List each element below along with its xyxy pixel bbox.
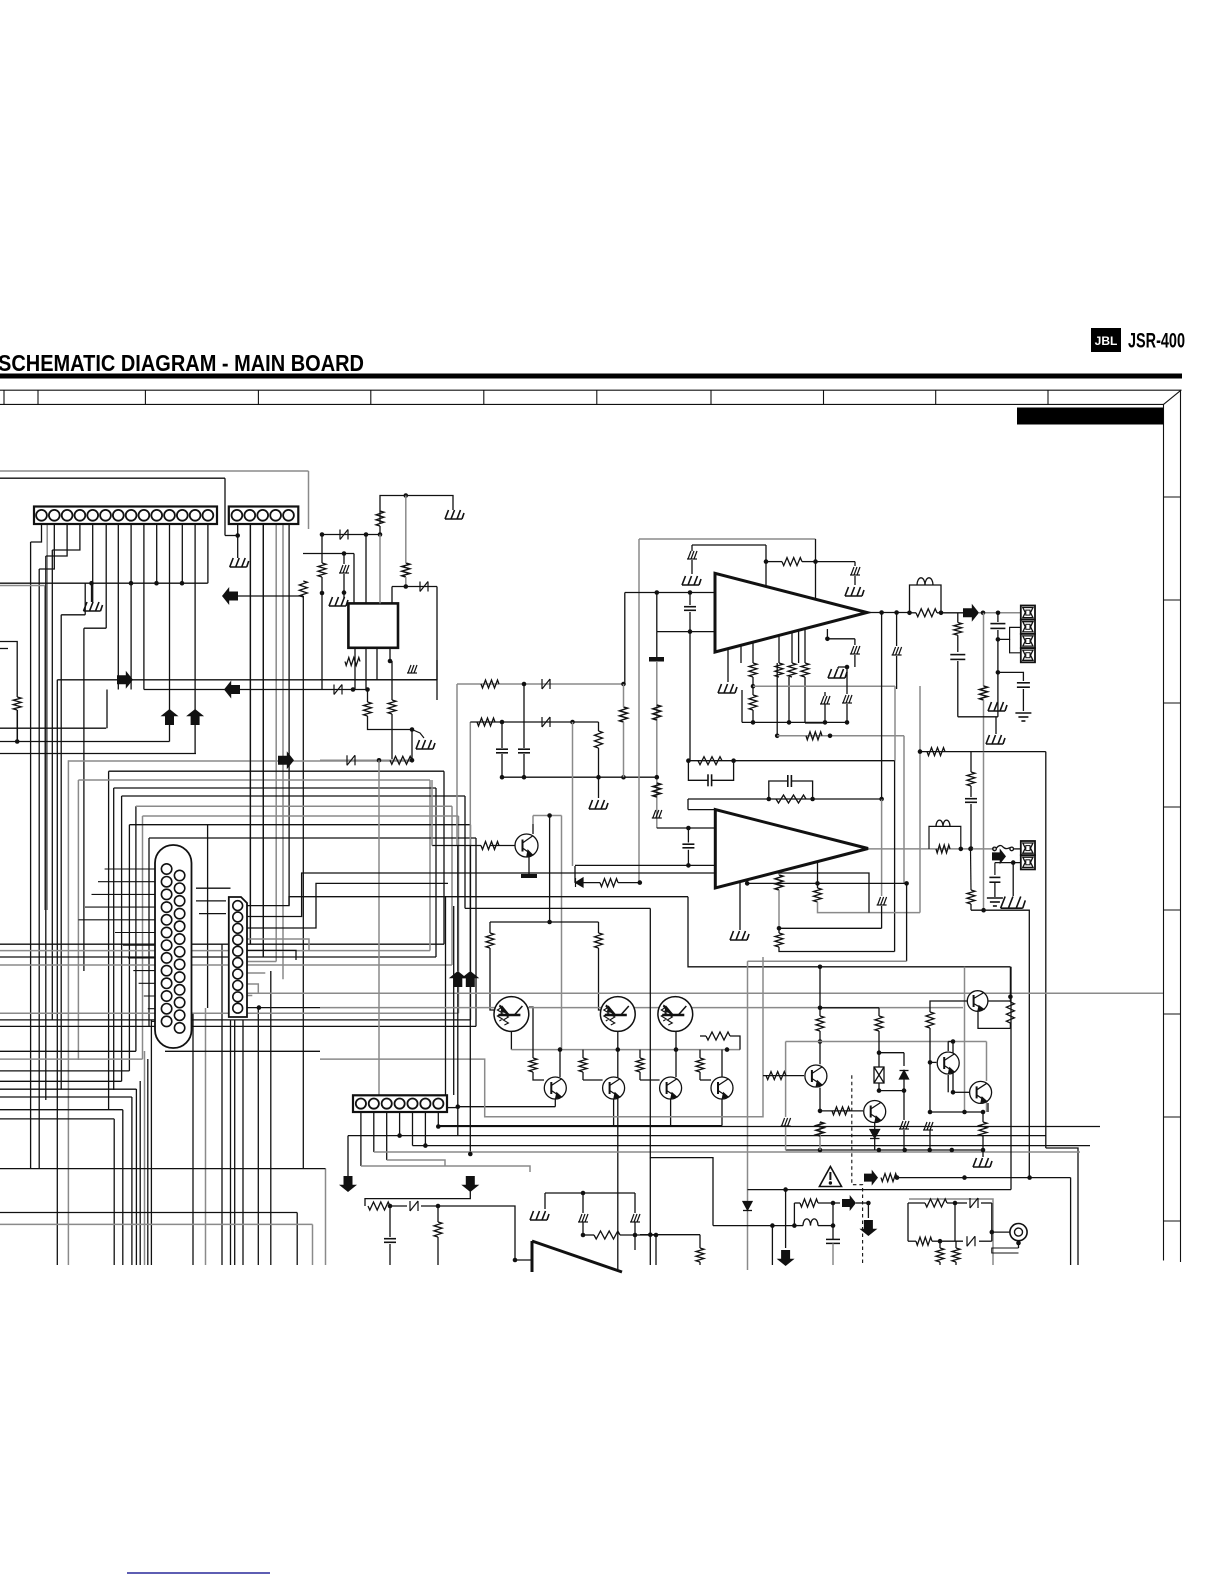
resistor R20	[916, 609, 937, 617]
wire h722b	[573, 721, 599, 723]
left bus vertical wires	[17, 471, 325, 1265]
wire	[832, 1226, 834, 1239]
Q23 emitter	[987, 1103, 989, 1112]
wire q22	[947, 1042, 949, 1052]
long v470	[469, 845, 471, 971]
resistor R4	[318, 563, 326, 577]
title rule	[0, 374, 1182, 379]
wire	[365, 535, 367, 604]
wire v656c	[656, 700, 658, 828]
wire	[932, 1240, 940, 1242]
long v458	[457, 845, 459, 971]
bottom blue line	[127, 1572, 270, 1574]
gray frame U1	[639, 538, 816, 540]
wire h1190	[748, 1189, 1012, 1191]
hatch cap C9	[842, 695, 852, 703]
ground G8	[845, 587, 864, 596]
connector CN2 (5-pin header)	[229, 507, 298, 525]
wire	[939, 1241, 941, 1248]
resistor R33	[595, 933, 603, 948]
wire stub817	[817, 862, 819, 884]
wire	[778, 928, 780, 933]
resistor R26	[698, 757, 722, 765]
arrow A8	[864, 1170, 878, 1186]
CN1 pin2 jog	[39, 524, 54, 569]
wire v623	[623, 684, 625, 707]
wire	[881, 906, 883, 928]
CN5 right wire	[447, 1107, 458, 1109]
bus stubs near CN3	[196, 888, 231, 913]
cap C16	[965, 799, 977, 803]
wire v688	[687, 799, 689, 810]
wire	[998, 672, 1024, 681]
wire h910	[971, 910, 1029, 1177]
resistor R36	[636, 1058, 644, 1072]
resistor R60	[775, 933, 783, 947]
wire h1106	[458, 1106, 556, 1108]
cap C17	[708, 774, 712, 786]
wire v920	[919, 686, 921, 913]
hatch cap C7	[850, 567, 860, 575]
wire stub747	[746, 880, 748, 884]
wire	[957, 613, 959, 623]
connector CN3 (DIN oval 26-pin)	[155, 845, 192, 1048]
wire v955	[954, 1203, 956, 1241]
hatch cap C23	[630, 1214, 640, 1222]
wire h751	[920, 751, 1046, 753]
wire	[970, 804, 972, 849]
wire comp in	[365, 1190, 470, 1206]
diode D1	[340, 530, 348, 540]
wire h961	[748, 960, 907, 962]
wire	[583, 1234, 594, 1236]
U2 gnd drop	[739, 881, 741, 930]
wire v470	[469, 722, 471, 845]
wire	[389, 1205, 391, 1207]
wire h883	[747, 882, 906, 884]
gray pathA	[320, 957, 763, 1117]
wire	[523, 684, 525, 748]
U1 under pins	[727, 649, 729, 663]
diode D11	[970, 1198, 978, 1208]
gray h736	[777, 735, 904, 737]
wire	[983, 700, 985, 752]
ground G4	[329, 597, 348, 606]
wire	[675, 1050, 677, 1077]
U1 top loop	[692, 544, 766, 546]
arrow A2	[963, 604, 979, 622]
resistor R16	[788, 663, 796, 677]
resistor R41	[594, 1231, 620, 1239]
cap C5	[518, 749, 530, 753]
resistor R32	[486, 933, 494, 948]
wire	[955, 1202, 967, 1204]
warning triangle	[819, 1167, 841, 1187]
CN5 drops	[360, 1112, 362, 1166]
emitters	[554, 1099, 556, 1107]
resistor R38	[706, 1032, 730, 1040]
wire v575	[574, 866, 576, 883]
wire	[389, 1206, 391, 1237]
rail h1150	[786, 1149, 983, 1151]
wire	[878, 1008, 880, 1016]
cap C20	[682, 844, 694, 848]
wire q14	[617, 1050, 619, 1270]
arrow A15 left	[224, 681, 240, 699]
wire h615 jog	[61, 614, 85, 616]
wire v656b	[656, 632, 658, 657]
wire h815	[533, 815, 562, 817]
arrow A16 gray	[278, 751, 294, 769]
resistor R8	[390, 756, 412, 764]
wire	[437, 1206, 439, 1222]
ground G5	[416, 740, 435, 749]
wire gray h760	[320, 759, 412, 761]
wire u1 fb drop	[776, 663, 778, 736]
wire h690	[320, 689, 368, 691]
resistor R49	[816, 1122, 824, 1136]
wire v881	[881, 613, 883, 800]
CN4 w5	[247, 950, 296, 960]
hatch cap C24	[781, 1118, 791, 1126]
wire h1177	[897, 1177, 1071, 1179]
arrow A1 left	[222, 587, 238, 605]
resistor R34	[529, 1058, 537, 1072]
wire v639	[638, 539, 640, 883]
transistor Q22	[937, 1052, 959, 1074]
wire h1145	[413, 1145, 1091, 1147]
resistor R24	[967, 772, 975, 786]
xbox U5	[874, 1067, 884, 1083]
resistor R11	[595, 731, 603, 748]
wire	[903, 1130, 905, 1150]
wire fb2	[769, 781, 788, 799]
Q5 emitter gnd	[528, 857, 530, 875]
wire v1046	[1045, 752, 1047, 1148]
inductor L1	[910, 585, 942, 613]
resistor R31	[481, 842, 499, 850]
transistor Q15	[660, 1077, 682, 1099]
gray h686	[753, 685, 895, 687]
resistor R6	[364, 702, 372, 716]
wire jack gnd	[1018, 1241, 1020, 1248]
resistor R55	[936, 1248, 944, 1262]
up arrows A4 A5	[449, 971, 467, 987]
wire box bottom	[320, 679, 437, 681]
resistor R61	[967, 890, 975, 904]
ground G9	[718, 684, 737, 693]
wire gray v986	[986, 1093, 988, 1112]
ground G12 earth	[1015, 713, 1031, 721]
diode D6	[576, 878, 584, 887]
Q10 coll wire	[529, 1007, 533, 1058]
Q21 under	[874, 1123, 876, 1129]
diode D12	[967, 1236, 975, 1246]
wire	[741, 690, 743, 722]
wire v572	[572, 722, 574, 866]
wire	[1012, 863, 1014, 896]
diode D2	[334, 685, 342, 695]
CN1 pin1 jog	[31, 524, 42, 542]
wire h553	[303, 553, 354, 555]
CN3 left pin stub wires	[78, 869, 166, 1021]
wire h680	[57, 679, 437, 681]
Q20 base	[763, 1075, 804, 1077]
right border ruler	[1164, 390, 1182, 1262]
wire	[957, 661, 959, 717]
JBL logo	[1091, 328, 1121, 352]
wire	[0, 642, 17, 698]
resistor R52	[979, 1122, 987, 1136]
dashed link	[852, 1075, 863, 1265]
wire v898	[894, 686, 896, 761]
resistor R56	[952, 1248, 960, 1262]
arrow A9 down	[777, 1250, 795, 1266]
wire	[582, 1193, 584, 1213]
wire	[846, 704, 848, 722]
wire	[819, 1008, 821, 1016]
transistor Q20	[805, 1065, 827, 1087]
ground G6	[589, 800, 608, 809]
hatch cap C12	[850, 646, 860, 654]
wire q24 base	[930, 1001, 967, 1012]
diode D3	[347, 755, 355, 765]
CN1 pin bus	[91, 583, 93, 602]
wire gnd hook	[412, 730, 424, 739]
resistor R54	[916, 1237, 932, 1245]
wire h586	[392, 586, 437, 588]
switch SW1	[993, 846, 1014, 851]
resistor R3	[402, 563, 410, 577]
wire h928	[779, 927, 882, 929]
inductor L2	[929, 826, 961, 849]
resistor R27	[776, 795, 806, 803]
wire	[501, 722, 503, 748]
U2 fb in	[657, 827, 716, 829]
wire	[343, 554, 345, 565]
wire fbloop	[688, 761, 708, 781]
resistor R40	[434, 1222, 442, 1237]
resistor R19	[806, 732, 822, 740]
RCA jack J3	[1010, 1224, 1027, 1241]
wire q23	[986, 1042, 988, 1082]
wire v785b	[785, 1190, 787, 1248]
wire	[979, 1240, 992, 1242]
Q24 coll	[988, 1000, 1010, 1002]
wire	[634, 1193, 636, 1213]
hatch cap C26	[899, 1121, 909, 1129]
wire	[856, 1202, 868, 1204]
wire jog right	[1046, 1148, 1078, 1265]
wire v896	[896, 613, 898, 647]
hatch cap C28	[877, 897, 887, 905]
CN4 w6	[247, 961, 276, 963]
hatch cap C19	[652, 810, 662, 818]
wire	[699, 1050, 701, 1058]
ground G11	[988, 702, 1007, 711]
wire v690	[689, 632, 691, 761]
cap C25	[826, 1239, 840, 1243]
resistor R29	[653, 783, 661, 797]
resistor R17	[801, 663, 809, 677]
wire v964	[964, 967, 966, 1112]
diode D5	[542, 717, 550, 727]
wire v561	[561, 816, 563, 1050]
wire	[411, 730, 413, 761]
resistor R18	[749, 695, 757, 710]
diode D8	[743, 1202, 752, 1211]
wire v847	[846, 667, 848, 694]
wire h718	[958, 716, 998, 718]
wire h1166	[361, 1166, 530, 1172]
transistor Q12	[658, 997, 693, 1032]
wire jack	[992, 1231, 1010, 1233]
arrow A11 down	[859, 1220, 877, 1236]
diode D9	[900, 1071, 909, 1080]
CN4 w10	[247, 1007, 320, 1009]
wire v820	[819, 967, 821, 1008]
connector CN4 (10-pin SIL)	[229, 897, 247, 1017]
hatch cap C27	[923, 1122, 933, 1130]
wire v772	[771, 1226, 773, 1265]
wire	[970, 786, 972, 797]
resistor R58	[814, 888, 822, 902]
op-amp U2 (power amp R)	[715, 810, 868, 888]
wire v457	[456, 684, 458, 845]
wire	[766, 561, 782, 563]
wire	[379, 526, 381, 535]
wire h1008	[820, 1007, 879, 1009]
resistor R45	[816, 1016, 824, 1031]
transistor Q16	[711, 1077, 733, 1099]
wire	[765, 545, 767, 562]
CN4 wires right	[247, 897, 688, 906]
svg-text:SCHEMATIC DIAGRAM - MAIN BOARD: SCHEMATIC DIAGRAM - MAIN BOARD	[0, 350, 364, 376]
ground G17	[730, 931, 749, 940]
U2 -in	[575, 864, 715, 866]
ground G14	[1001, 897, 1026, 909]
CN4 w4	[247, 939, 309, 950]
wire h1008b	[320, 1007, 963, 1009]
resistor R43	[881, 1174, 897, 1182]
wire top loop	[380, 496, 453, 525]
wire CN2 gnd drop	[224, 478, 226, 535]
resistor R57	[13, 697, 21, 710]
CN1 pin4 jog	[52, 524, 80, 550]
resistor R39	[368, 1202, 390, 1210]
wire v983b	[983, 752, 985, 911]
U2 out	[868, 848, 995, 850]
wire v904	[903, 736, 905, 884]
wire	[689, 593, 691, 606]
wire	[559, 1050, 561, 1077]
gray h1041	[786, 1041, 987, 1043]
wire	[639, 1050, 641, 1058]
transistor Q14	[603, 1077, 625, 1099]
resistor R47	[766, 1072, 786, 1080]
wire spk2 gnd	[995, 862, 1021, 864]
IC box U4	[348, 603, 398, 647]
ground G10	[828, 669, 847, 678]
wire	[854, 655, 856, 667]
wire h1051	[165, 1050, 320, 1052]
wire h689	[144, 689, 320, 691]
wire	[582, 1050, 584, 1058]
resistor R1	[299, 581, 307, 597]
wire	[815, 539, 817, 562]
wire gray h684	[457, 683, 624, 685]
Q21 base	[820, 1110, 863, 1112]
wire h760	[734, 760, 895, 762]
wire	[533, 1072, 544, 1080]
wire h966 join	[818, 965, 823, 970]
black corner bar	[1017, 408, 1164, 425]
arrow A10	[842, 1195, 856, 1211]
wire h722	[742, 721, 847, 723]
resistor R30	[600, 879, 618, 887]
diode D7	[410, 1201, 418, 1211]
CN4 w9	[247, 995, 252, 997]
IC bottom pins	[354, 648, 356, 690]
wire	[979, 612, 1021, 614]
gray box	[909, 1199, 993, 1265]
wire	[997, 613, 999, 622]
resistor R51	[1006, 1002, 1014, 1023]
resistor R44	[800, 1199, 818, 1207]
rail h922	[490, 921, 599, 923]
wire cap gnd	[854, 562, 856, 566]
ground G15	[530, 1211, 549, 1220]
wire bus777	[502, 776, 657, 778]
resistor R35	[579, 1058, 587, 1072]
CN2 pin drops	[249, 524, 251, 944]
v445	[445, 897, 447, 1095]
hatch cap C11	[892, 647, 902, 655]
resistor R13	[782, 558, 802, 566]
wire	[583, 882, 600, 884]
resistor R28	[653, 705, 661, 720]
hatch cap C6	[687, 551, 697, 559]
wire	[489, 922, 491, 933]
hatch cap C3	[407, 665, 417, 673]
transistor Q10	[494, 997, 529, 1032]
wire h908	[465, 907, 650, 909]
wire	[785, 1127, 787, 1150]
wire	[752, 677, 754, 686]
wire	[794, 1225, 803, 1227]
resistor R42	[696, 1248, 704, 1262]
wire	[421, 1205, 438, 1207]
wire	[687, 828, 689, 843]
resistor R9	[481, 680, 499, 688]
wire	[794, 1202, 800, 1204]
ground G18 earth	[987, 898, 1003, 906]
wire	[1014, 848, 1022, 850]
resistor R25	[936, 845, 950, 853]
resistor R10	[477, 718, 495, 726]
wire in2	[908, 1240, 916, 1242]
left bus horizontal wires	[0, 471, 476, 1224]
CN4 w2	[247, 873, 869, 917]
wire	[405, 496, 407, 564]
cap C29	[989, 877, 1000, 882]
wire	[721, 1050, 723, 1077]
wire q22 base	[947, 1075, 949, 1092]
wire	[545, 1192, 635, 1194]
wire	[379, 535, 381, 604]
Q5 wires	[490, 845, 515, 847]
Q10 emitter	[510, 1032, 512, 1050]
